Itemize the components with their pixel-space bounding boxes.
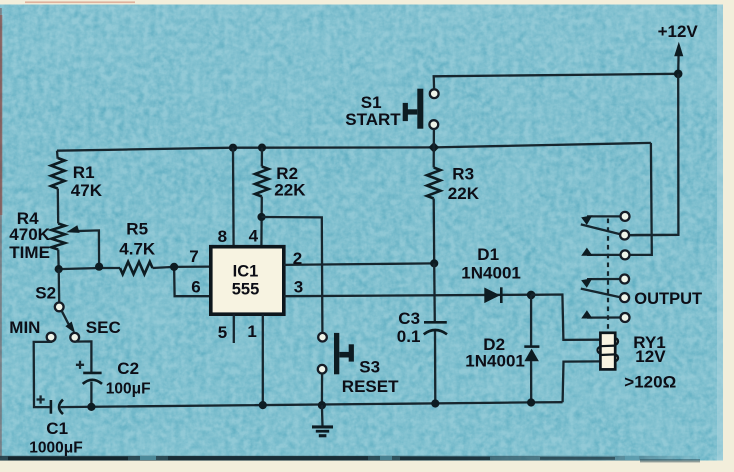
wire D1 node to relay coil top: [531, 295, 601, 340]
wire bottom rail up to coil bottom: [563, 361, 601, 402]
relay contact c6 line with arrow: [587, 316, 620, 318]
svg-text:4.7K: 4.7K: [119, 240, 156, 259]
svg-text:OUTPUT: OUTPUT: [634, 290, 702, 308]
node dot R4-bottom: [55, 265, 63, 273]
svg-text:22K: 22K: [448, 184, 480, 203]
svg-text:470K: 470K: [9, 225, 50, 244]
switch S2 MIN contact: [47, 333, 56, 342]
diode D2: [530, 295, 532, 346]
wire left rail R1/R4 branch: [56, 151, 59, 159]
C1 plus sign: [37, 395, 45, 403]
svg-text:6: 6: [191, 277, 200, 296]
wire SEC to C2: [75, 341, 92, 372]
wire R3 bottom to pin2 node: [433, 199, 436, 264]
node dot ground: [318, 401, 326, 409]
svg-text:R5: R5: [126, 220, 148, 239]
resistor R5: [120, 262, 153, 274]
IC1 555 box: [211, 247, 284, 315]
svg-text:SEC: SEC: [86, 318, 121, 337]
pin 1 wire: [262, 314, 264, 405]
left red edge line: [0, 8, 2, 458]
node dot C2-bottom: [87, 403, 95, 411]
relay contact circles c1-c6: [621, 212, 630, 221]
switch S2 SEC contact: [70, 333, 79, 342]
diode D1: [484, 288, 500, 304]
+12V supply arrow: [677, 54, 680, 74]
svg-text:5: 5: [218, 323, 227, 342]
svg-text:+12V: +12V: [658, 22, 699, 41]
capacitor C1: [50, 400, 53, 414]
node dot pin7: [170, 263, 178, 271]
svg-text:1N4001: 1N4001: [465, 352, 525, 371]
svg-text:100μF: 100μF: [106, 381, 151, 398]
node dot wiper: [95, 263, 103, 271]
wire R3 top lead: [433, 147, 435, 167]
svg-text:1000μF: 1000μF: [29, 440, 82, 457]
svg-text:RESET: RESET: [342, 377, 399, 396]
svg-text:TIME: TIME: [9, 243, 50, 262]
svg-text:0.1: 0.1: [397, 327, 421, 346]
relay contact c1 line with arrow: [587, 215, 620, 217]
wire pin6 branch: [174, 267, 211, 296]
wire R2 top lead: [261, 148, 264, 167]
node dot pin1: [259, 401, 267, 409]
svg-text:START: START: [345, 110, 401, 129]
wire S3 to ground node: [321, 374, 324, 406]
wire pin 8: [232, 148, 235, 247]
svg-text:8: 8: [218, 227, 227, 246]
switch S2 pole: [55, 303, 64, 312]
svg-text:12V: 12V: [635, 347, 666, 366]
svg-text:C2: C2: [117, 359, 139, 378]
wire R2-node to S3: [262, 217, 323, 333]
pin 3 wire to D1: [284, 295, 531, 297]
wire R5 to pin7: [153, 267, 211, 268]
svg-text:2: 2: [293, 249, 302, 268]
wire +12V down to relay common: [629, 74, 678, 235]
node dot D2-bottom: [527, 398, 535, 406]
wire C2 to bottom rail: [90, 382, 92, 407]
relay contact c3 line with arrow: [587, 254, 620, 256]
svg-text:MIN: MIN: [9, 318, 40, 337]
wire S2 drop: [58, 269, 61, 302]
wire node to R5: [59, 268, 120, 269]
svg-text:C3: C3: [398, 309, 420, 328]
R4 wiper arm: [72, 230, 99, 266]
svg-text:S3: S3: [359, 358, 380, 377]
relay mechanical dashed link: [607, 219, 609, 332]
wire C3 vertical: [433, 263, 436, 321]
wire S1 top to +12V rail: [434, 74, 679, 90]
pin 2 wire: [284, 263, 434, 265]
svg-text:>120Ω: >120Ω: [624, 372, 676, 391]
svg-text:IC1: IC1: [233, 262, 259, 280]
svg-text:1N4001: 1N4001: [461, 263, 521, 282]
C2 plus sign: [76, 361, 84, 369]
svg-text:D1: D1: [477, 245, 499, 264]
svg-text:S2: S2: [35, 284, 56, 303]
svg-text:555: 555: [232, 281, 260, 299]
wire top rail: [57, 143, 651, 151]
svg-text:47K: 47K: [71, 181, 103, 200]
svg-text:C1: C1: [46, 419, 68, 438]
svg-text:R1: R1: [73, 163, 95, 182]
resistor R3: [427, 168, 441, 199]
node dot C3-bottom: [431, 399, 439, 407]
node dot R2-top: [258, 144, 266, 152]
pushbutton S3: [318, 333, 327, 342]
capacitor C2: [83, 372, 101, 375]
wire S1 bottom: [433, 129, 435, 147]
potentiometer R4: [51, 224, 65, 250]
node dot S1-junction: [428, 142, 439, 153]
node dot D1-cathode: [527, 291, 536, 300]
pushbutton S1: [430, 89, 439, 98]
resistor R2: [255, 167, 269, 197]
top red sliver: [25, 1, 135, 3]
svg-text:7: 7: [189, 247, 198, 266]
relay contact wire c2 to +12V: [629, 234, 678, 237]
bottom dark scan band: [0, 456, 700, 461]
wire R4 bottom to node: [57, 250, 60, 270]
node dot +12V: [674, 70, 683, 79]
svg-text:R3: R3: [452, 164, 474, 183]
node dot pin2: [430, 259, 438, 267]
S2 arm: [62, 311, 70, 326]
relay coil RY1: [597, 338, 618, 361]
wire R2 bottom / pin 4: [260, 197, 263, 247]
svg-text:4: 4: [249, 226, 259, 245]
pin 5 stub: [233, 314, 235, 343]
svg-text:1: 1: [247, 322, 256, 341]
svg-text:S1: S1: [361, 93, 382, 112]
relay contact c4 line with arrow: [587, 278, 620, 280]
ground: [321, 405, 324, 426]
node dot R2-bottom: [257, 213, 265, 221]
relay contact arm 1: [581, 224, 621, 234]
wire MIN to C1: [34, 342, 51, 408]
svg-text:22K: 22K: [274, 180, 306, 199]
relay contact arm 2: [581, 289, 620, 298]
wire R1 to R4: [57, 189, 60, 224]
capacitor C3: [424, 321, 447, 324]
wire bottom rail: [61, 402, 563, 407]
resistor R1: [51, 158, 65, 189]
relay contact wire c3 up to top rail: [629, 143, 652, 255]
svg-text:3: 3: [294, 278, 303, 297]
right edge fade: [717, 5, 723, 461]
node dot pin8-top: [229, 144, 237, 152]
